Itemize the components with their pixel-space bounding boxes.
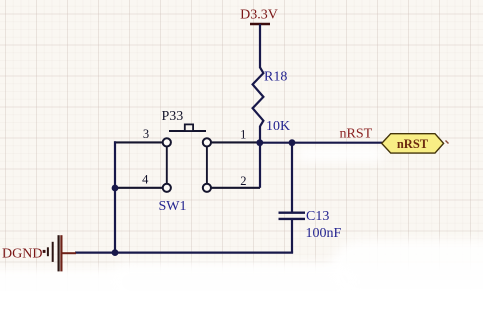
switch SW1 actuator knob [185, 124, 193, 131]
pin 4 [115, 187, 163, 189]
switch SW1 contact circle pin1 [203, 138, 211, 146]
junction at C13 branch [289, 139, 296, 146]
switch SW1 contact circle pin3 [163, 138, 171, 146]
svg-text:100nF: 100nF [306, 226, 342, 241]
wire power bar to R18 [259, 24, 261, 68]
wire node down to C13 [291, 143, 293, 212]
junction at R18/pin1 [256, 139, 263, 146]
switch SW1 contact circle pin2 [203, 184, 211, 192]
svg-text:P33: P33 [162, 109, 184, 124]
pin 1 [211, 141, 260, 143]
svg-text:10K: 10K [266, 119, 290, 134]
tick mark right of port [446, 141, 449, 144]
svg-text:D3.3V: D3.3V [240, 8, 278, 23]
wire pin2 up to node [259, 142, 261, 187]
capacitor C13 top plate [279, 211, 306, 213]
svg-text:DGND: DGND [2, 246, 42, 261]
svg-text:nRST: nRST [340, 127, 373, 142]
DGND bar 2 [52, 242, 54, 262]
wire R18 to node [259, 126, 261, 143]
capacitor C13 bottom plate [279, 218, 306, 220]
svg-text:R18: R18 [264, 70, 287, 85]
svg-text:C13: C13 [306, 209, 329, 224]
resistor R18 [253, 67, 264, 126]
svg-text:3: 3 [143, 127, 149, 141]
DGND bar 4 [60, 235, 62, 271]
switch SW1 right contact link [206, 147, 208, 184]
switch SW1 actuator bar [169, 130, 206, 132]
pin 3 [114, 141, 163, 143]
DGND bar 3 [57, 235, 59, 271]
white smudge bottom [0, 268, 483, 328]
svg-text:nRST: nRST [397, 137, 429, 151]
junction at pin4 branch [112, 185, 119, 192]
pin 2 [211, 187, 260, 189]
svg-text:2: 2 [240, 174, 246, 188]
white smudge under wire [296, 146, 384, 162]
ground rail wire [75, 252, 293, 254]
power port D3.3V bar symbol [250, 23, 270, 26]
wire C13 down to ground rail [291, 220, 293, 253]
port nRST flag [382, 134, 444, 153]
svg-text:4: 4 [142, 173, 149, 187]
DGND pin stub [62, 252, 76, 254]
switch SW1 contact circle pin4 [163, 184, 171, 192]
DGND bar 1 [47, 247, 49, 256]
svg-text:SW1: SW1 [159, 199, 187, 214]
DGND dot mark [43, 250, 46, 253]
wire node to port nRST [259, 142, 382, 144]
wire left branch from pin3 down to ground rail [114, 141, 116, 252]
switch SW1 left contact link [166, 147, 168, 184]
svg-text:1: 1 [240, 127, 246, 141]
junction at ground rail [112, 249, 119, 256]
